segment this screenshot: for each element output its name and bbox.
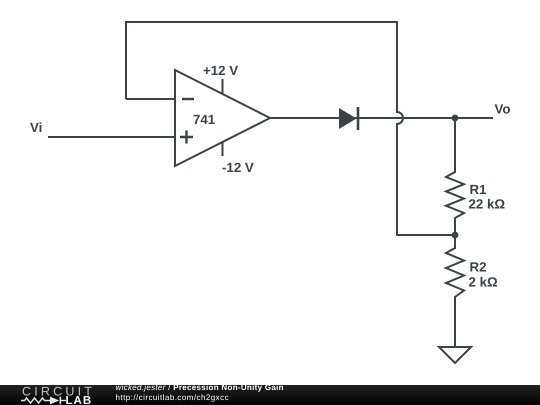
wire Vi input [48, 136, 175, 138]
op-amp U1 triangle [175, 70, 270, 166]
svg-text:2 kΩ: 2 kΩ [469, 275, 498, 290]
wire op-amp output to Vo [270, 117, 493, 119]
node junction between R1 and R2 [452, 232, 459, 239]
footer bar [0, 385, 540, 405]
svg-text:741: 741 [193, 112, 216, 127]
svg-text:22 kΩ: 22 kΩ [469, 197, 506, 212]
svg-text:Vi: Vi [30, 120, 42, 135]
resistor R2 [446, 235, 464, 346]
op-amp non-inverting input plus symbol [180, 131, 193, 144]
ground symbol [439, 347, 471, 363]
node junction at Vo [452, 115, 459, 122]
svg-text:+12 V: +12 V [203, 63, 238, 78]
svg-text:LAB: LAB [66, 395, 93, 405]
svg-text:-12 V: -12 V [222, 160, 254, 175]
diode D1 cathode bar [357, 107, 360, 130]
diode D1 triangle [339, 108, 357, 129]
wire inverting input [126, 98, 175, 100]
-12 V supply stub [222, 142, 224, 156]
svg-text:R1: R1 [470, 182, 488, 197]
resistor R1 [446, 118, 464, 235]
+12 V supply stub [222, 79, 224, 94]
svg-text:wicked.jester / Precession Non: wicked.jester / Precession Non-Unity Gai… [116, 383, 284, 392]
op-amp inverting input minus symbol [182, 98, 194, 100]
svg-text:Vo: Vo [495, 102, 511, 117]
wire feedback loop from inverting input to R1/R2 junction with hop over output [126, 22, 455, 235]
footer logo resistor zigzag [21, 398, 50, 403]
svg-text:http://circuitlab.com/ch2gxcc: http://circuitlab.com/ch2gxcc [116, 393, 230, 402]
svg-text:R2: R2 [470, 260, 487, 275]
footer logo diode symbol [50, 397, 59, 405]
